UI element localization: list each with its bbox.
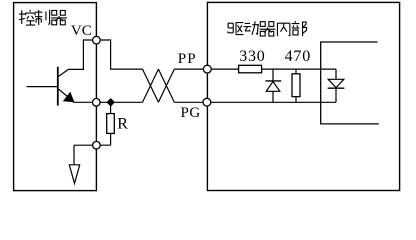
- char 器 (2nd): [260, 22, 276, 36]
- wire collector path to VCC node: [58, 40, 97, 77]
- svg-text:VC: VC: [71, 23, 92, 39]
- terminal PG: [203, 98, 211, 106]
- junction dot (diamond): [107, 98, 115, 107]
- transistor Q1 base wire: [27, 86, 58, 88]
- svg-text:330: 330: [239, 48, 265, 65]
- wire emitter to twisted pair (PG side): [73, 101, 143, 103]
- controller box (控制器): [14, 3, 97, 191]
- resistor 330 body: [239, 65, 262, 73]
- char 部: [292, 21, 307, 36]
- transistor Q1 emitter: [58, 89, 73, 102]
- svg-text:PP: PP: [178, 51, 197, 67]
- char 内: [277, 23, 289, 36]
- node VCC: [93, 36, 101, 44]
- char 制: [35, 10, 50, 25]
- wire PP into driver: [174, 68, 238, 70]
- svg-text:PG: PG: [181, 105, 201, 121]
- wire twisted pair crossover: [143, 69, 175, 102]
- resistor 470 leads: [295, 69, 297, 102]
- node ground: [93, 141, 101, 149]
- resistor 470 body: [292, 74, 300, 97]
- char 动: [243, 21, 259, 34]
- wire VCC node to twisted pair (PP side): [97, 40, 143, 69]
- svg-text:R: R: [117, 116, 128, 133]
- LED cathode lead: [335, 88, 337, 102]
- wire PG into driver: [174, 101, 336, 103]
- transistor Q1 emitter arrowhead: [63, 92, 75, 103]
- char 控: [19, 10, 35, 25]
- resistor R lead + wire to ground node: [74, 102, 111, 165]
- optocoupler LED (pointing down): [328, 79, 345, 88]
- optocoupler bracket: [321, 42, 379, 124]
- diode D1 leads: [272, 69, 274, 102]
- char 器: [51, 10, 67, 24]
- svg-text:470: 470: [285, 48, 311, 65]
- wire 330 to LED anode: [262, 69, 336, 79]
- transistor Q1 base bar: [57, 67, 59, 106]
- driver box (驱动器内部): [207, 2, 399, 190]
- char 驱: [228, 23, 244, 35]
- ground symbol: [69, 165, 79, 184]
- terminal PP: [203, 65, 211, 73]
- label 控制器: [19, 10, 67, 25]
- node emitter/PG: [93, 99, 101, 107]
- diode D1 (pointing up): [265, 81, 281, 91]
- resistor R body: [107, 114, 115, 134]
- label 驱动器内部: [228, 21, 307, 36]
